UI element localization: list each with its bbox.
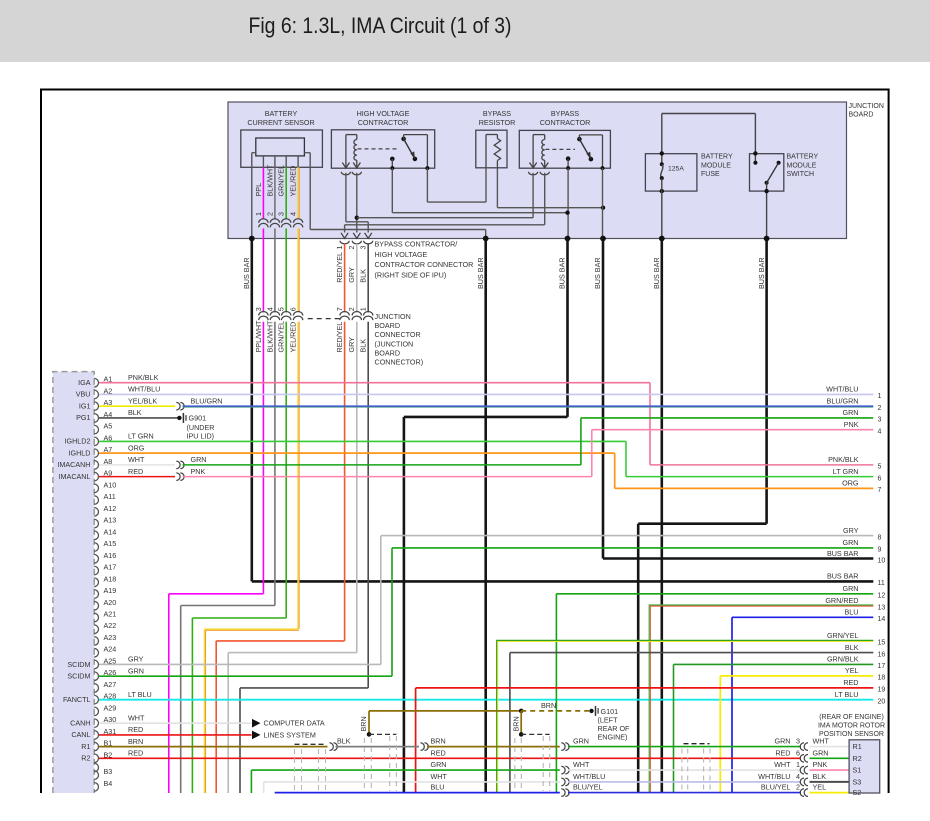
- svg-text:11: 11: [878, 580, 885, 587]
- svg-text:BLK/WHT: BLK/WHT: [265, 164, 274, 197]
- svg-text:7: 7: [335, 307, 344, 311]
- svg-text:9: 9: [878, 547, 882, 554]
- svg-text:WHT: WHT: [128, 713, 145, 722]
- svg-text:1: 1: [878, 393, 882, 400]
- svg-text:BUS BAR: BUS BAR: [476, 257, 485, 289]
- svg-text:BRN: BRN: [359, 716, 368, 731]
- svg-text:BLK: BLK: [337, 736, 351, 745]
- svg-text:HIGH VOLTAGE: HIGH VOLTAGE: [357, 109, 410, 118]
- svg-text:GRN/RED: GRN/RED: [825, 596, 858, 605]
- svg-text:A22: A22: [104, 621, 117, 630]
- svg-text:7: 7: [878, 487, 882, 494]
- svg-text:(JUNCTION: (JUNCTION: [375, 339, 414, 348]
- svg-text:6: 6: [796, 748, 800, 757]
- svg-text:BYPASS: BYPASS: [551, 109, 579, 118]
- svg-text:MODULE: MODULE: [701, 162, 731, 169]
- svg-text:BLK: BLK: [845, 643, 859, 652]
- svg-text:CANH: CANH: [70, 718, 90, 727]
- svg-text:1: 1: [359, 307, 368, 311]
- svg-text:A19: A19: [104, 586, 117, 595]
- svg-text:BOARD: BOARD: [849, 112, 874, 119]
- svg-text:A17: A17: [104, 563, 117, 572]
- svg-text:PNK: PNK: [813, 760, 828, 769]
- svg-text:SCIDM: SCIDM: [67, 660, 90, 669]
- svg-text:3: 3: [796, 737, 800, 746]
- svg-text:BRN: BRN: [431, 737, 446, 746]
- svg-text:3: 3: [878, 417, 882, 424]
- svg-text:CONTRACTOR: CONTRACTOR: [540, 118, 591, 127]
- svg-text:BATTERY: BATTERY: [787, 154, 819, 161]
- svg-text:GRN: GRN: [191, 455, 207, 464]
- svg-text:5: 5: [878, 464, 882, 471]
- svg-text:GRN: GRN: [843, 538, 859, 547]
- svg-text:SCIDM: SCIDM: [67, 672, 90, 681]
- svg-text:BOARD: BOARD: [375, 348, 401, 357]
- svg-text:R1: R1: [81, 742, 90, 751]
- svg-text:2: 2: [878, 405, 882, 412]
- svg-text:LT GRN: LT GRN: [833, 467, 859, 476]
- svg-text:IMA MOTOR ROTOR: IMA MOTOR ROTOR: [818, 723, 885, 730]
- svg-text:CONNECTOR: CONNECTOR: [375, 330, 421, 339]
- svg-text:BOARD: BOARD: [375, 321, 401, 330]
- svg-text:GRN/YEL: GRN/YEL: [277, 321, 286, 353]
- svg-text:IGHLD: IGHLD: [69, 448, 91, 457]
- svg-text:4: 4: [265, 307, 274, 311]
- svg-text:FUSE: FUSE: [701, 171, 720, 178]
- svg-text:SWITCH: SWITCH: [787, 171, 815, 178]
- svg-text:GRN: GRN: [573, 737, 589, 746]
- svg-text:A12: A12: [104, 504, 117, 513]
- svg-text:RED/YEL: RED/YEL: [335, 322, 344, 353]
- svg-text:GRY: GRY: [843, 526, 859, 535]
- svg-text:(REAR OF ENGINE): (REAR OF ENGINE): [819, 714, 884, 721]
- svg-text:HIGH VOLTAGE: HIGH VOLTAGE: [375, 250, 428, 259]
- svg-text:RED: RED: [431, 748, 446, 757]
- svg-text:B4: B4: [104, 779, 113, 788]
- svg-text:A15: A15: [104, 539, 117, 548]
- svg-text:WHT: WHT: [431, 772, 448, 781]
- svg-text:YEL: YEL: [845, 666, 859, 675]
- svg-text:BUS BAR: BUS BAR: [827, 572, 859, 581]
- svg-text:WHT/BLU: WHT/BLU: [758, 772, 790, 781]
- svg-text:3: 3: [359, 246, 368, 250]
- svg-text:ORG: ORG: [842, 479, 859, 488]
- svg-text:RED: RED: [775, 748, 790, 757]
- svg-text:PPL: PPL: [254, 183, 263, 197]
- svg-text:PPL/WHT: PPL/WHT: [254, 320, 263, 353]
- svg-text:5: 5: [277, 307, 286, 311]
- svg-text:4: 4: [289, 212, 298, 216]
- svg-text:13: 13: [878, 604, 886, 611]
- svg-text:CURRENT SENSOR: CURRENT SENSOR: [247, 118, 314, 127]
- svg-text:YEL/RED: YEL/RED: [289, 322, 298, 353]
- svg-text:POSITION SENSOR: POSITION SENSOR: [819, 731, 884, 738]
- svg-text:JUNCTION: JUNCTION: [849, 103, 884, 110]
- svg-text:A21: A21: [104, 610, 117, 619]
- svg-text:WHT: WHT: [128, 455, 145, 464]
- svg-text:WHT/BLU: WHT/BLU: [826, 385, 858, 394]
- svg-text:1: 1: [335, 246, 344, 250]
- svg-text:YEL: YEL: [813, 783, 827, 792]
- svg-text:WHT: WHT: [774, 760, 791, 769]
- svg-text:FANCTL: FANCTL: [63, 695, 91, 704]
- svg-text:17: 17: [878, 663, 886, 670]
- svg-text:2: 2: [347, 246, 356, 250]
- svg-text:16: 16: [878, 651, 886, 658]
- svg-text:PNK: PNK: [844, 420, 859, 429]
- svg-text:BYPASS CONTRACTOR/: BYPASS CONTRACTOR/: [375, 240, 458, 249]
- svg-text:BLK: BLK: [359, 269, 368, 283]
- svg-text:CANL: CANL: [71, 730, 90, 739]
- svg-text:S3: S3: [853, 778, 862, 787]
- svg-text:BRN: BRN: [511, 716, 520, 731]
- svg-text:GRN: GRN: [431, 760, 447, 769]
- svg-text:3: 3: [277, 212, 286, 216]
- svg-text:A16: A16: [104, 551, 117, 560]
- svg-text:BLK: BLK: [128, 408, 142, 417]
- svg-text:CONNECTOR): CONNECTOR): [375, 357, 424, 366]
- svg-text:YEL/RED: YEL/RED: [289, 166, 298, 197]
- svg-text:IMACANH: IMACANH: [57, 460, 90, 469]
- svg-text:RED: RED: [128, 749, 143, 758]
- svg-text:BLU/YEL: BLU/YEL: [573, 783, 603, 792]
- svg-text:2: 2: [347, 307, 356, 311]
- svg-text:BUS BAR: BUS BAR: [827, 549, 859, 558]
- svg-text:BLU/GRN: BLU/GRN: [827, 396, 859, 405]
- svg-text:19: 19: [878, 687, 886, 694]
- svg-text:WHT/BLU: WHT/BLU: [128, 385, 160, 394]
- svg-text:BLU: BLU: [431, 783, 445, 792]
- svg-text:LINES SYSTEM: LINES SYSTEM: [264, 730, 316, 739]
- svg-text:BLK: BLK: [813, 772, 827, 781]
- svg-text:15: 15: [878, 640, 886, 647]
- svg-text:R2: R2: [853, 754, 862, 763]
- svg-text:PNK/BLK: PNK/BLK: [128, 373, 159, 382]
- svg-text:GRY: GRY: [347, 267, 356, 283]
- svg-text:12: 12: [878, 593, 886, 600]
- svg-text:A10: A10: [104, 480, 117, 489]
- svg-text:CONTRACTOR CONNECTOR: CONTRACTOR CONNECTOR: [375, 260, 474, 269]
- svg-text:BLK/WHT: BLK/WHT: [265, 320, 274, 353]
- svg-text:GRN/BLK: GRN/BLK: [827, 655, 859, 664]
- svg-text:IGHLD2: IGHLD2: [65, 437, 91, 446]
- svg-text:A23: A23: [104, 633, 117, 642]
- svg-text:GRN: GRN: [843, 408, 859, 417]
- svg-text:CONTRACTOR: CONTRACTOR: [358, 118, 409, 127]
- svg-text:LT BLU: LT BLU: [128, 690, 152, 699]
- svg-text:RED: RED: [128, 725, 143, 734]
- svg-text:GRN: GRN: [128, 666, 144, 675]
- svg-text:A18: A18: [104, 574, 117, 583]
- svg-text:GRY: GRY: [128, 655, 144, 664]
- svg-text:COMPUTER DATA: COMPUTER DATA: [264, 719, 325, 728]
- svg-text:A24: A24: [104, 645, 117, 654]
- svg-text:8: 8: [878, 534, 882, 541]
- svg-text:1: 1: [796, 760, 800, 769]
- svg-text:RESISTOR: RESISTOR: [479, 118, 516, 127]
- svg-text:LT GRN: LT GRN: [128, 432, 154, 441]
- svg-text:4: 4: [878, 428, 882, 435]
- svg-text:ENGINE): ENGINE): [598, 733, 628, 742]
- svg-text:Fig 6: 1.3L, IMA Circuit (1 of: Fig 6: 1.3L, IMA Circuit (1 of 3): [249, 13, 512, 38]
- svg-text:RED: RED: [843, 678, 858, 687]
- svg-text:BUS BAR: BUS BAR: [558, 257, 567, 289]
- svg-text:G901: G901: [189, 413, 207, 422]
- svg-text:10: 10: [878, 557, 886, 564]
- svg-text:YEL/BLK: YEL/BLK: [128, 396, 157, 405]
- svg-text:A13: A13: [104, 516, 117, 525]
- svg-text:2: 2: [265, 212, 274, 216]
- svg-text:A14: A14: [104, 527, 117, 536]
- svg-text:S2: S2: [853, 788, 862, 797]
- svg-text:(RIGHT SIDE OF IPU): (RIGHT SIDE OF IPU): [375, 270, 447, 279]
- svg-text:GRN/YEL: GRN/YEL: [827, 631, 859, 640]
- svg-text:BUS BAR: BUS BAR: [652, 257, 661, 289]
- svg-text:GRN: GRN: [813, 748, 829, 757]
- svg-text:BLK: BLK: [359, 339, 368, 353]
- svg-text:IGA: IGA: [78, 378, 91, 387]
- svg-text:6: 6: [289, 307, 298, 311]
- svg-text:BLU/YEL: BLU/YEL: [761, 783, 791, 792]
- svg-text:R1: R1: [853, 742, 862, 751]
- svg-text:IG1: IG1: [79, 401, 91, 410]
- svg-text:20: 20: [878, 699, 886, 706]
- svg-text:18: 18: [878, 675, 886, 682]
- svg-text:A5: A5: [104, 422, 113, 431]
- svg-text:LT BLU: LT BLU: [835, 690, 859, 699]
- svg-text:BATTERY: BATTERY: [701, 154, 733, 161]
- svg-text:BRN: BRN: [128, 737, 143, 746]
- svg-text:JUNCTION: JUNCTION: [375, 312, 411, 321]
- svg-text:GRN: GRN: [775, 737, 791, 746]
- svg-text:GRN: GRN: [843, 584, 859, 593]
- svg-text:S1: S1: [853, 766, 862, 775]
- svg-text:BYPASS: BYPASS: [483, 109, 511, 118]
- svg-text:4: 4: [796, 772, 800, 781]
- svg-text:MODULE: MODULE: [787, 162, 817, 169]
- svg-text:1: 1: [254, 212, 263, 216]
- svg-text:IPU LID): IPU LID): [187, 431, 215, 440]
- svg-text:BATTERY: BATTERY: [265, 109, 298, 118]
- svg-text:PNK: PNK: [191, 467, 206, 476]
- svg-text:BUS BAR: BUS BAR: [757, 257, 766, 289]
- svg-text:WHT: WHT: [573, 760, 590, 769]
- svg-text:125A: 125A: [668, 165, 684, 172]
- svg-text:RED: RED: [128, 467, 143, 476]
- svg-text:3: 3: [254, 307, 263, 311]
- svg-text:RED/YEL: RED/YEL: [335, 252, 344, 283]
- svg-text:BUS BAR: BUS BAR: [593, 257, 602, 289]
- svg-text:GRN/YEL: GRN/YEL: [277, 165, 286, 197]
- svg-text:PG1: PG1: [76, 413, 90, 422]
- svg-text:ORG: ORG: [128, 443, 145, 452]
- svg-text:6: 6: [878, 475, 882, 482]
- svg-text:GRY: GRY: [347, 337, 356, 353]
- svg-text:A11: A11: [104, 492, 116, 501]
- svg-text:BLU: BLU: [845, 608, 859, 617]
- svg-text:2: 2: [796, 783, 800, 792]
- svg-text:PNK/BLK: PNK/BLK: [828, 455, 859, 464]
- svg-text:B3: B3: [104, 767, 113, 776]
- svg-text:A29: A29: [104, 703, 117, 712]
- svg-text:A20: A20: [104, 598, 117, 607]
- svg-text:BUS BAR: BUS BAR: [242, 257, 251, 289]
- svg-text:BRN: BRN: [541, 701, 556, 710]
- svg-text:14: 14: [878, 616, 886, 623]
- svg-text:WHT/BLU: WHT/BLU: [573, 772, 605, 781]
- svg-text:R2: R2: [81, 754, 90, 763]
- svg-text:A27: A27: [104, 680, 117, 689]
- svg-text:BLU/GRN: BLU/GRN: [191, 396, 223, 405]
- svg-text:IMACANL: IMACANL: [59, 472, 91, 481]
- svg-text:VBU: VBU: [76, 390, 91, 399]
